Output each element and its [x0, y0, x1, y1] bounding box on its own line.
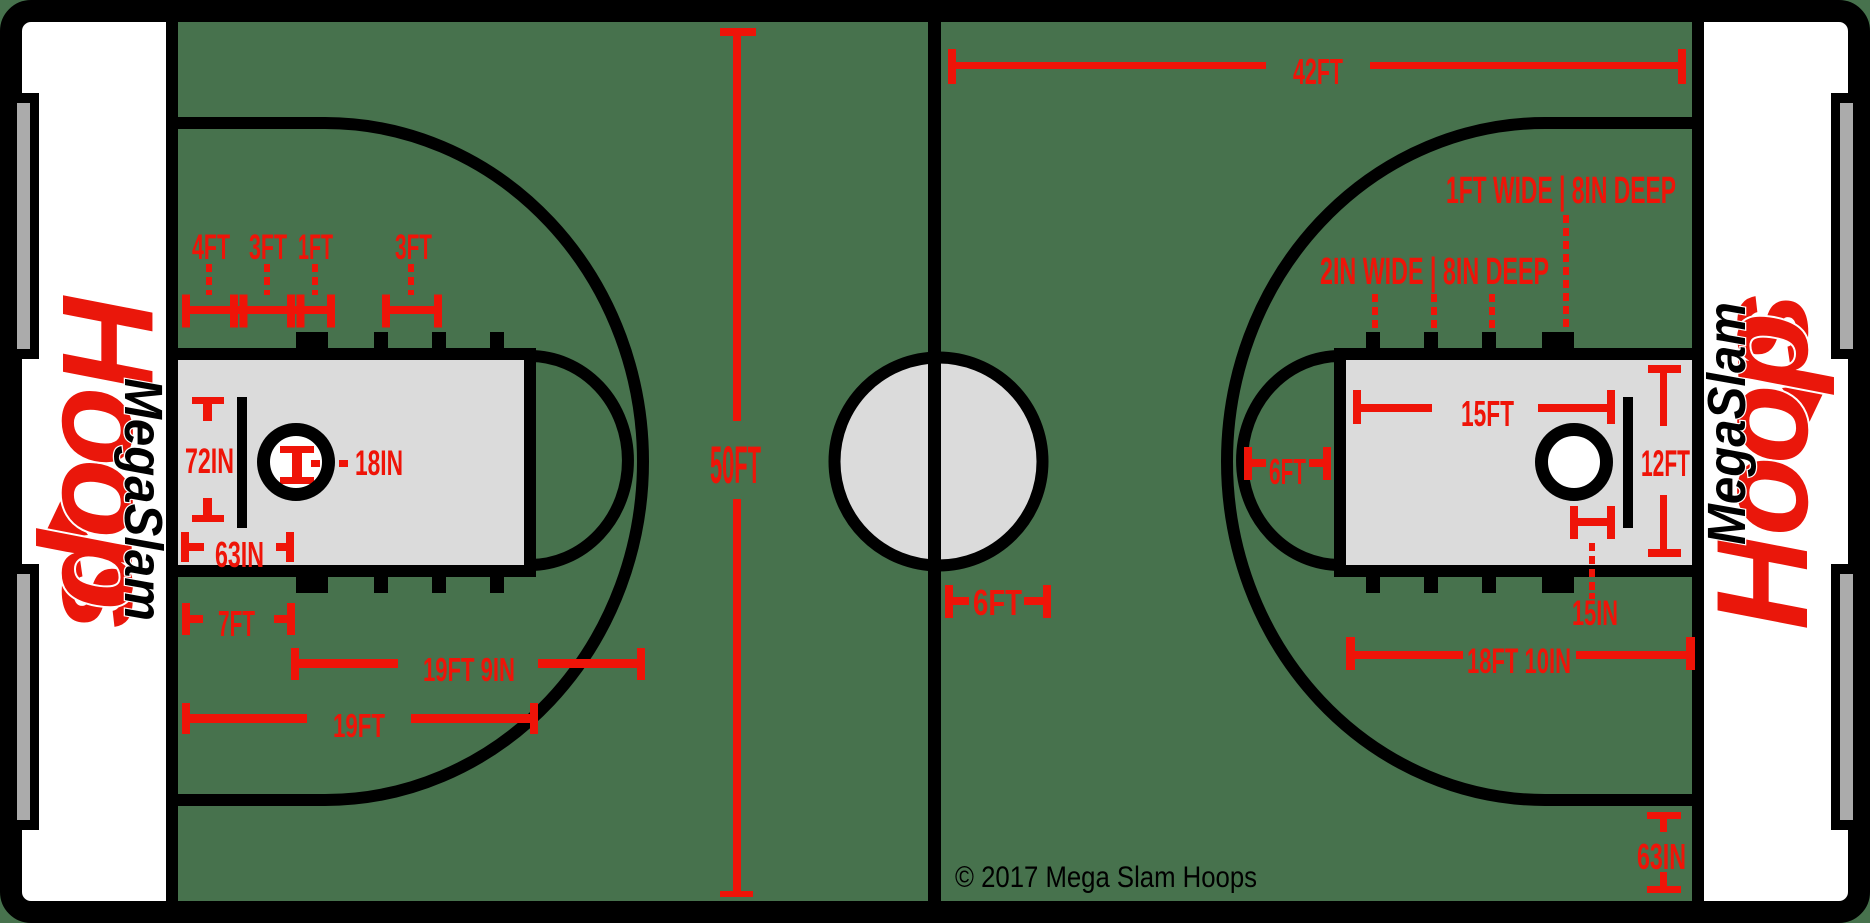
dim 3FT (second) bar: [382, 306, 442, 314]
dim 15FT: [1353, 390, 1361, 424]
right frame pad bottom: [1831, 564, 1870, 830]
left baseline: [166, 21, 178, 902]
svg-text:18FT 10IN: 18FT 10IN: [1467, 642, 1571, 681]
svg-text:1FT: 1FT: [298, 228, 333, 267]
dotted leaders to lane marks: [1372, 215, 1569, 328]
dim 7FT: [182, 603, 190, 635]
svg-text:42FT: 42FT: [1293, 51, 1343, 92]
left hoop ring: [264, 430, 329, 495]
left free-throw semicircle: [530, 356, 628, 565]
svg-text:6FT: 6FT: [973, 582, 1022, 623]
svg-text:MegaSlam: MegaSlam: [113, 378, 173, 621]
left gray bar bottom: [17, 574, 30, 820]
svg-text:7FT: 7FT: [218, 603, 255, 644]
dim 19FT: [182, 703, 190, 734]
left backboard: [237, 397, 247, 528]
right free-throw semicircle: [1242, 356, 1340, 565]
svg-text:3FT: 3FT: [395, 228, 432, 267]
right frame pad top: [1831, 93, 1870, 359]
dim 6FT right key: [1244, 447, 1252, 480]
left white apron: [12, 12, 166, 911]
svg-text:72IN: 72IN: [185, 442, 234, 481]
svg-text:50FT: 50FT: [710, 436, 761, 495]
dim 50FT vertical: [720, 28, 756, 36]
logo p flag: [1782, 383, 1828, 425]
dim 12FT: [1648, 365, 1681, 373]
svg-text:2IN WIDE | 8IN DEEP: 2IN WIDE | 8IN DEEP: [1320, 251, 1549, 293]
dim 63IN left: [181, 532, 189, 562]
svg-text:6FT: 6FT: [1269, 451, 1306, 492]
svg-text:15FT: 15FT: [1461, 393, 1514, 434]
dim chain 4FT/3FT/1FT bar: [182, 306, 335, 314]
dim 18FT 10IN: [1346, 637, 1355, 670]
svg-text:H: H: [1689, 533, 1835, 630]
left hoop white fill: [264, 430, 329, 495]
svg-text:3FT: 3FT: [249, 228, 287, 267]
dim 42FT: [948, 49, 956, 84]
logo Hoops word: [35, 293, 181, 631]
svg-text:15IN: 15IN: [1572, 594, 1618, 633]
dim 6FT center circle: [945, 585, 953, 618]
left frame pad bottom: [0, 564, 39, 830]
dim 19FT 9IN: [291, 648, 299, 680]
dotted leaders for 4FT/3FT/1FT/3FT: [206, 264, 414, 295]
svg-text:19FT: 19FT: [333, 707, 385, 744]
right hoop ring: [1542, 430, 1607, 495]
right gray bar top: [1840, 103, 1853, 349]
left three-point line: [178, 123, 643, 800]
dim 18IN (I-beam in hoop): [280, 446, 314, 453]
right lane hash marks bottom: [1366, 576, 1574, 593]
center line: [928, 21, 941, 902]
logo p flag: [42, 498, 88, 540]
right white apron: [1704, 12, 1858, 911]
logo Hoops word: [1689, 292, 1835, 630]
svg-text:19FT 9IN: 19FT 9IN: [423, 651, 515, 688]
dim 15IN: [1570, 506, 1578, 539]
right hoop white fill: [1542, 430, 1607, 495]
right key (lane): [1340, 354, 1698, 571]
right backboard: [1623, 397, 1633, 528]
right three-point line: [1227, 123, 1692, 800]
svg-text:4FT: 4FT: [192, 228, 230, 267]
right lane hash marks top: [1366, 332, 1574, 349]
left lane hash marks top: [296, 332, 504, 349]
right baseline: [1692, 21, 1704, 902]
dim 72IN: [192, 397, 224, 404]
dim 63IN right: [1647, 812, 1681, 819]
left key (lane): [172, 354, 530, 571]
svg-text:H: H: [35, 293, 181, 390]
svg-text:12FT: 12FT: [1641, 443, 1690, 484]
svg-text:MegaSlam: MegaSlam: [1697, 302, 1757, 545]
svg-text:© 2017 Mega Slam Hoops: © 2017 Mega Slam Hoops: [955, 861, 1257, 894]
left lane hash marks bottom: [296, 576, 504, 593]
left MegaSlam Hoops logo (rotated 90): [35, 293, 181, 631]
right MegaSlam Hoops logo (rotated -90): [1689, 292, 1835, 630]
svg-text:18IN: 18IN: [355, 444, 403, 483]
left gray bar top: [17, 103, 30, 349]
right gray bar bottom: [1840, 574, 1853, 820]
left frame pad top: [0, 93, 39, 359]
svg-text:1FT WIDE | 8IN DEEP: 1FT WIDE | 8IN DEEP: [1446, 170, 1676, 212]
center circle: [835, 358, 1043, 566]
svg-text:63IN: 63IN: [1637, 836, 1686, 877]
svg-text:63IN: 63IN: [215, 534, 264, 575]
